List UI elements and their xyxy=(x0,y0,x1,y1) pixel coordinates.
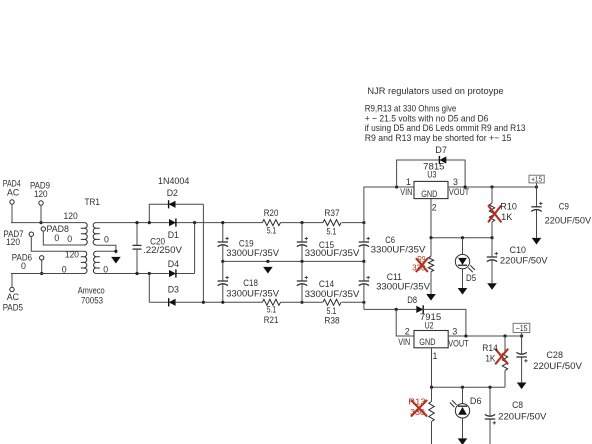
wire U2 GND pin down xyxy=(431,348,433,387)
capacitor C6 xyxy=(359,223,426,262)
svg-text:PAD5: PAD5 xyxy=(3,302,23,312)
svg-text:D3: D3 xyxy=(168,285,179,295)
ground below C10 xyxy=(487,283,497,290)
wire plus rail R37 to C6 xyxy=(342,222,364,224)
diode D4 xyxy=(168,259,179,278)
wire PAD6 to AC2 rail xyxy=(41,260,43,274)
svg-text:3300UF/35V: 3300UF/35V xyxy=(305,248,360,258)
node D7 tap on VIN xyxy=(395,185,398,188)
svg-text:120: 120 xyxy=(34,189,48,199)
ground below C28 xyxy=(517,383,527,390)
node D6 top xyxy=(461,386,464,389)
svg-text:.22/250V: .22/250V xyxy=(143,245,182,255)
node R9 top xyxy=(429,236,432,239)
capacitor C20 xyxy=(133,223,183,274)
node D7 return on VOUT xyxy=(464,185,467,188)
ground below D6 xyxy=(458,438,468,444)
svg-text:1K: 1K xyxy=(485,354,495,364)
svg-text:220UF/50V: 220UF/50V xyxy=(545,216,592,226)
svg-text:D6: D6 xyxy=(470,396,482,406)
svg-text:C18: C18 xyxy=(243,278,258,288)
node AC1 junction at PAD9 xyxy=(39,221,42,224)
node C8 top xyxy=(488,386,491,389)
svg-text:TR1: TR1 xyxy=(85,197,101,207)
wire U3 GND rail xyxy=(431,237,492,239)
pad PAD7 xyxy=(3,229,33,247)
wire PAD5 to AC2 rail xyxy=(11,274,13,288)
svg-text:+ − 21.5 volts with no D5 and: + − 21.5 volts with no D5 and D6 xyxy=(365,113,489,123)
transformer TR1 secondary lower winding xyxy=(93,251,99,273)
node C19 bottom xyxy=(221,260,224,263)
node center tap junction xyxy=(114,250,117,253)
svg-text:0: 0 xyxy=(104,235,109,245)
node C14 bottom xyxy=(300,301,303,304)
svg-text:220UF/50V: 220UF/50V xyxy=(533,361,582,371)
capacitor C10 xyxy=(487,238,548,284)
wire PAD9 to AC1 rail xyxy=(40,205,42,222)
capacitor C19 xyxy=(218,223,280,262)
ground mid rail xyxy=(263,267,273,274)
svg-text:120: 120 xyxy=(65,250,79,260)
svg-text:VOUT: VOUT xyxy=(448,339,469,349)
resistor R20 xyxy=(262,208,280,236)
wire AC2 rail secondary to D4 xyxy=(96,273,168,275)
svg-text:3: 3 xyxy=(453,177,458,187)
wire PAD4 to AC1 rail xyxy=(11,204,13,222)
wire D3 to negative rail xyxy=(176,301,263,303)
wire minus rail jog down xyxy=(364,302,416,309)
node C15 bottom xyxy=(300,260,303,263)
node C15 top xyxy=(300,221,303,224)
svg-text:U3: U3 xyxy=(427,170,436,180)
wire PAD7 to primary lower 120 terminal xyxy=(31,236,84,251)
wire D3 branch xyxy=(149,274,168,303)
svg-text:C6: C6 xyxy=(385,235,395,245)
capacitor C9 xyxy=(531,187,591,238)
diode D8 xyxy=(407,295,423,313)
wire PAD8 to primary upper 0 terminal xyxy=(43,231,84,245)
svg-text:R9 and R13 may be shorted for: R9 and R13 may be shorted for +− 15 xyxy=(365,133,512,143)
ground below D5 xyxy=(458,288,468,295)
svg-text:1: 1 xyxy=(406,177,411,187)
svg-text:3300UF/35V: 3300UF/35V xyxy=(305,289,360,299)
wire U3 GND pin down xyxy=(430,199,432,238)
svg-text:NJR regulators used on protoyp: NJR regulators used on protoype xyxy=(367,86,503,96)
note text block xyxy=(365,86,526,143)
svg-text:0: 0 xyxy=(62,264,67,274)
svg-text:R38: R38 xyxy=(324,315,339,325)
svg-text:C10: C10 xyxy=(510,245,526,255)
svg-text:R37: R37 xyxy=(324,208,339,218)
wire AC2 rail (primary bottom) xyxy=(11,273,84,275)
resistor R38 xyxy=(323,299,341,325)
ground below C9 xyxy=(532,238,542,245)
node C20 bottom xyxy=(135,272,138,275)
svg-text:3300UF/35V: 3300UF/35V xyxy=(226,289,279,299)
wire plus rail R20 to C15 xyxy=(281,222,323,224)
pad PAD6 xyxy=(12,252,44,271)
svg-text:120: 120 xyxy=(6,237,20,247)
diode D7 xyxy=(435,145,447,164)
capacitor C18 xyxy=(218,261,280,302)
pad PAD5 xyxy=(3,287,23,312)
node C11 bottom xyxy=(362,301,365,304)
svg-text:R9,R13 at 330 Ohms give: R9,R13 at 330 Ohms give xyxy=(365,104,457,114)
resistor R9 crossed out xyxy=(412,238,434,294)
wire VIN riser to U3 xyxy=(364,187,414,223)
wire U2 GND rail xyxy=(432,386,506,388)
diode D3 xyxy=(168,285,179,307)
ground center tap xyxy=(111,257,121,264)
LED D6 xyxy=(450,387,482,438)
svg-text:Amveco: Amveco xyxy=(78,285,105,295)
wire U2 VIN branch xyxy=(396,309,414,336)
capacitor C14 xyxy=(297,261,360,302)
resistor R10 crossed out xyxy=(489,187,517,238)
svg-text:2: 2 xyxy=(405,327,410,337)
svg-text:1: 1 xyxy=(433,351,438,361)
svg-text:1N4004: 1N4004 xyxy=(158,176,189,186)
capacitor C28 xyxy=(516,336,582,383)
svg-text:D5: D5 xyxy=(466,273,476,283)
svg-text:0: 0 xyxy=(21,261,26,271)
wire ground mid rail xyxy=(223,260,364,262)
wire plus15 stub xyxy=(536,183,538,187)
node D8 tap VIN U2 xyxy=(395,308,398,311)
node AC2 junction at PAD6 xyxy=(40,272,43,275)
svg-text:D4: D4 xyxy=(168,259,179,269)
node C20 top xyxy=(135,221,138,224)
svg-text:AC: AC xyxy=(7,187,20,197)
svg-text:C14: C14 xyxy=(319,279,334,289)
svg-text:D8: D8 xyxy=(407,295,417,305)
pin 2 U2 VIN xyxy=(398,327,410,348)
svg-text:R20: R20 xyxy=(264,208,279,218)
ground below R9 xyxy=(426,294,436,301)
svg-text:+15: +15 xyxy=(531,175,542,184)
node C19 top xyxy=(221,221,224,224)
pin 3 U3 VOUT xyxy=(449,177,470,197)
node D5 top xyxy=(461,236,464,239)
LED D5 xyxy=(455,238,476,288)
wire minus15 stub xyxy=(521,333,523,336)
svg-text:2: 2 xyxy=(432,203,437,213)
wire D8 to VOUT leg xyxy=(423,309,466,336)
svg-text:5.1: 5.1 xyxy=(267,305,276,315)
svg-text:AC: AC xyxy=(7,292,20,302)
transformer TR1 primary upper winding xyxy=(81,223,87,245)
node bridge AC2 junction xyxy=(148,272,151,275)
pin 3 U2 VOUT xyxy=(448,327,469,349)
node C6 top xyxy=(362,221,365,224)
svg-text:220UF/50V: 220UF/50V xyxy=(500,256,548,266)
node C18 bottom xyxy=(221,301,224,304)
svg-text:U2: U2 xyxy=(425,320,434,330)
wire secondary center tap xyxy=(96,245,116,253)
wire minus rail R21 to C14 xyxy=(281,301,323,303)
svg-text:−15: −15 xyxy=(516,324,529,333)
node C28 minus15 tap xyxy=(520,334,523,337)
wire U2 VOUT rail xyxy=(448,335,521,337)
svg-text:0: 0 xyxy=(54,233,59,243)
svg-text:R10: R10 xyxy=(500,201,517,211)
node mid rail ground tap xyxy=(266,260,269,263)
svg-text:220UF/50V: 220UF/50V xyxy=(498,412,546,422)
pad PAD9 xyxy=(30,180,50,205)
node bridge plus junction xyxy=(193,221,196,224)
wire AC1 rail secondary to bridge xyxy=(96,222,262,224)
diode D1 xyxy=(168,219,179,241)
svg-text:C28: C28 xyxy=(546,350,563,360)
diode D2 xyxy=(167,188,178,208)
capacitor C8 xyxy=(485,387,547,444)
svg-text:D2: D2 xyxy=(167,188,178,198)
svg-text:R21: R21 xyxy=(264,315,279,325)
svg-text:GND: GND xyxy=(421,189,437,199)
svg-text:70053: 70053 xyxy=(81,296,103,306)
resistor R21 xyxy=(262,299,280,325)
svg-text:C9: C9 xyxy=(559,202,569,212)
pin 1 U3 VIN xyxy=(400,177,412,197)
svg-text:0: 0 xyxy=(67,234,72,244)
svg-text:if using D5 and D6 Leds ommit: if using D5 and D6 Leds ommit R9 and R13 xyxy=(365,123,526,133)
label Amveco 70053 xyxy=(78,285,105,305)
resistor R37 xyxy=(323,208,341,236)
svg-text:3300UF/35V: 3300UF/35V xyxy=(371,245,426,255)
svg-text:D7: D7 xyxy=(435,145,447,155)
svg-text:3: 3 xyxy=(452,327,457,337)
wire AC1 rail (primary top) xyxy=(11,222,84,224)
pad PAD8 xyxy=(41,224,69,243)
node R13 top xyxy=(430,386,433,389)
node -15 terminal box xyxy=(513,323,530,333)
svg-text:D1: D1 xyxy=(168,230,179,240)
wire D7 bypass loop xyxy=(397,160,466,187)
resistor R13 crossed out xyxy=(408,387,434,444)
op-amp U2 regulator 7915 xyxy=(414,312,448,348)
resistor R14 crossed out xyxy=(482,336,507,387)
pad PAD4 xyxy=(3,178,21,204)
node R10 top xyxy=(490,185,493,188)
svg-text:VIN: VIN xyxy=(400,187,412,197)
capacitor C15 xyxy=(297,223,360,262)
node C10 top xyxy=(490,236,493,239)
svg-text:GND: GND xyxy=(419,337,435,347)
svg-text:R14: R14 xyxy=(482,343,498,353)
node +15 terminal box xyxy=(529,175,544,184)
svg-text:C8: C8 xyxy=(512,400,523,410)
svg-text:3300UF/35V: 3300UF/35V xyxy=(376,281,430,291)
svg-text:1K: 1K xyxy=(501,212,512,222)
capacitor C11 xyxy=(359,261,430,302)
svg-text:5.1: 5.1 xyxy=(327,227,337,237)
svg-text:VOUT: VOUT xyxy=(449,187,470,197)
node D8 return on VOUT xyxy=(464,334,467,337)
node C9 plus15 tap xyxy=(535,185,538,188)
svg-text:VIN: VIN xyxy=(398,337,410,347)
svg-text:5.1: 5.1 xyxy=(267,226,276,236)
node C6 bottom mid rail end xyxy=(362,260,365,263)
wire U3 VOUT rail xyxy=(448,186,537,188)
wire minus rail R38 to C11 xyxy=(342,301,364,303)
wire bridge plus vertical xyxy=(176,223,195,274)
node bridge AC1 junction xyxy=(148,221,151,224)
svg-text:3300UF/35V: 3300UF/35V xyxy=(226,248,279,258)
node negative rail corner xyxy=(202,301,205,304)
transformer TR1 secondary upper winding xyxy=(93,223,100,245)
wire D2 branch xyxy=(149,204,203,302)
op-amp U3 regulator 7815 xyxy=(414,161,448,199)
svg-text:120: 120 xyxy=(64,211,78,221)
node R14 top xyxy=(503,334,506,337)
transformer TR1 primary lower winding xyxy=(81,251,87,273)
